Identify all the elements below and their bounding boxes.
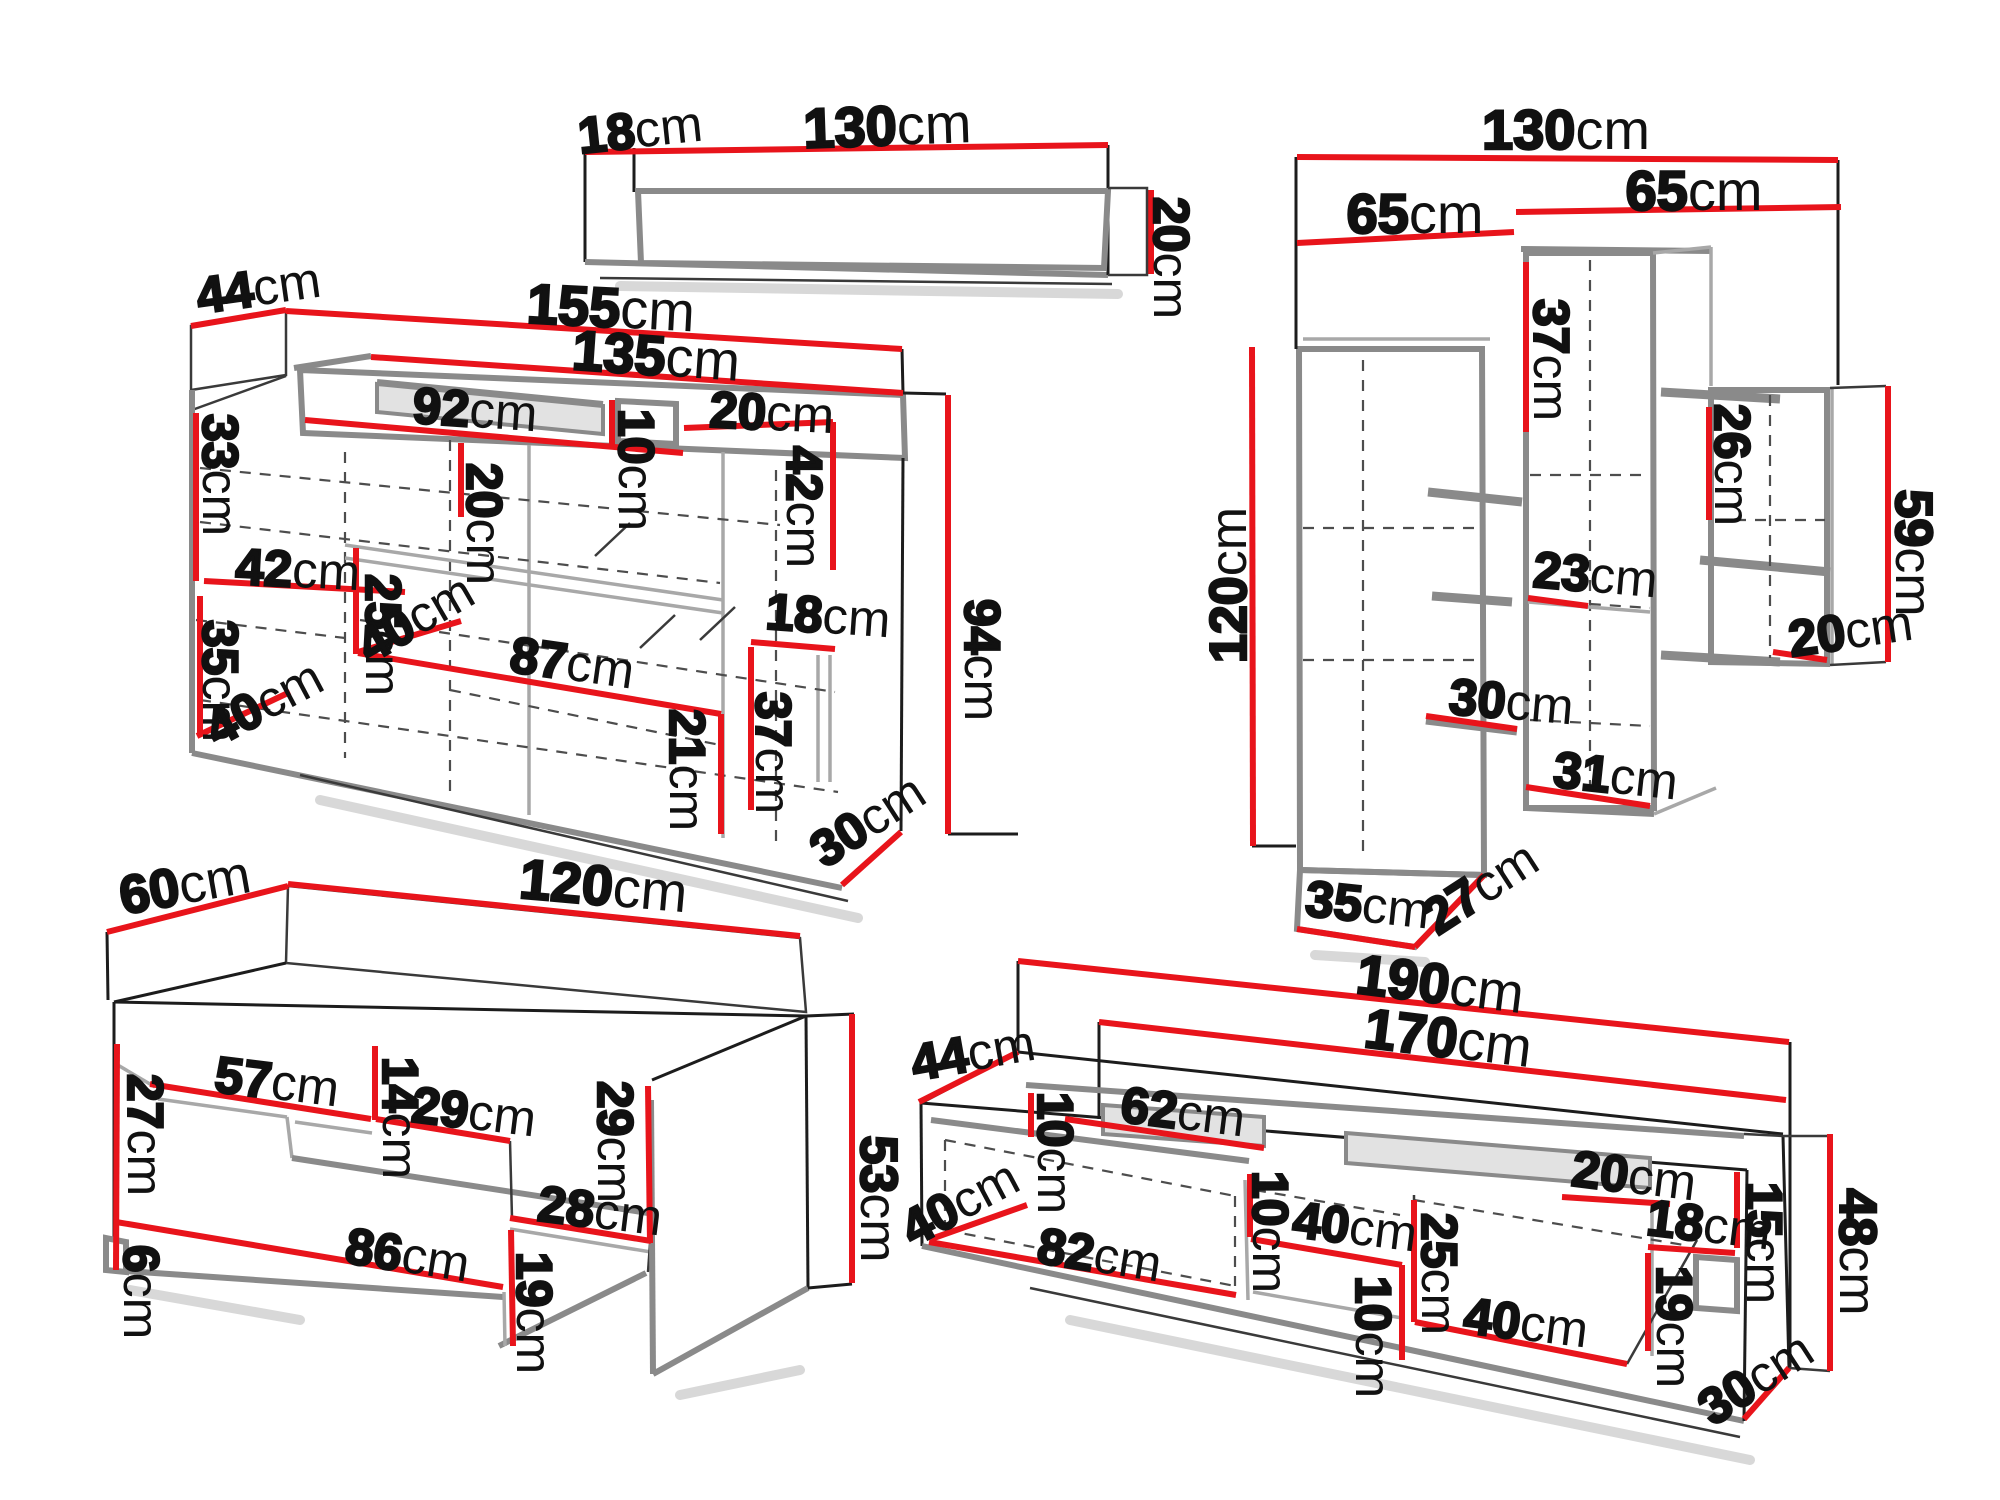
svg-text:65cm: 65cm xyxy=(1626,159,1763,222)
svg-text:42cm: 42cm xyxy=(776,446,832,568)
svg-text:37cm: 37cm xyxy=(745,692,801,814)
svg-text:20cm: 20cm xyxy=(1143,197,1199,319)
svg-text:10cm: 10cm xyxy=(1027,1092,1083,1214)
svg-text:130cm: 130cm xyxy=(802,91,972,160)
svg-text:10cm: 10cm xyxy=(1242,1171,1298,1293)
svg-text:130cm: 130cm xyxy=(1482,98,1650,161)
svg-text:20cm: 20cm xyxy=(456,463,512,585)
svg-text:10cm: 10cm xyxy=(1345,1276,1401,1398)
svg-text:27cm: 27cm xyxy=(117,1074,173,1196)
svg-text:65cm: 65cm xyxy=(1347,182,1484,245)
svg-text:92cm: 92cm xyxy=(411,377,539,443)
svg-text:94cm: 94cm xyxy=(954,599,1010,721)
svg-text:120cm: 120cm xyxy=(1200,507,1258,663)
svg-text:25cm: 25cm xyxy=(1411,1213,1467,1335)
svg-text:19cm: 19cm xyxy=(506,1252,562,1374)
svg-text:20cm: 20cm xyxy=(708,381,836,444)
svg-text:10cm: 10cm xyxy=(608,409,664,531)
svg-text:33cm: 33cm xyxy=(192,414,248,536)
svg-text:48cm: 48cm xyxy=(1828,1188,1886,1315)
svg-text:18cm: 18cm xyxy=(764,583,892,649)
svg-text:21cm: 21cm xyxy=(659,709,715,831)
svg-text:6cm: 6cm xyxy=(113,1245,169,1339)
svg-text:26cm: 26cm xyxy=(1704,404,1760,526)
svg-text:19cm: 19cm xyxy=(1646,1266,1702,1388)
svg-text:30cm: 30cm xyxy=(1447,668,1576,736)
svg-text:23cm: 23cm xyxy=(1531,541,1660,609)
svg-text:42cm: 42cm xyxy=(234,538,362,601)
svg-text:15cm: 15cm xyxy=(1736,1182,1792,1304)
svg-text:53cm: 53cm xyxy=(849,1135,907,1262)
svg-text:37cm: 37cm xyxy=(1523,299,1579,421)
